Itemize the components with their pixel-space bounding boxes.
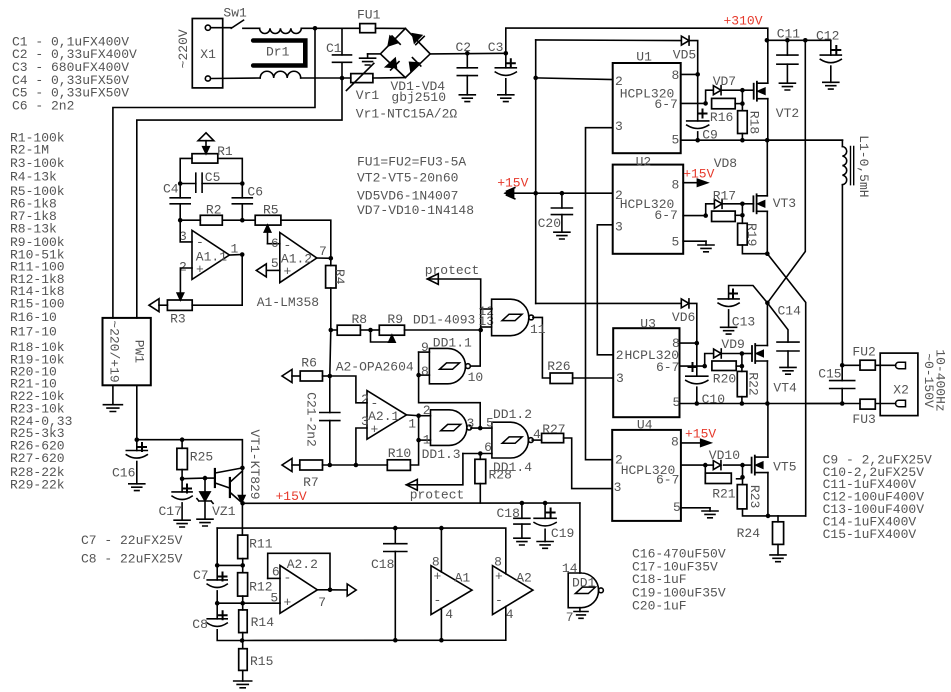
wire node down-left loop 2 (137, 78, 342, 318)
svg-text:C15-1uFX400V: C15-1uFX400V (823, 527, 917, 542)
svg-text:C20: C20 (538, 216, 561, 231)
wiper R5 (267, 229, 269, 244)
resistor R21 (704, 465, 706, 479)
resistor R23 (737, 485, 747, 509)
svg-text:3: 3 (614, 480, 622, 495)
capacitor C19 (543, 501, 548, 506)
svg-text:A2.2: A2.2 (287, 557, 318, 572)
svg-text:R25: R25 (190, 450, 213, 465)
svg-text:+15V: +15V (683, 167, 714, 182)
svg-text:R8: R8 (352, 312, 368, 327)
wire bottom rail (242, 607, 506, 641)
svg-text:C11: C11 (777, 27, 801, 42)
wire Sw1 to Dr1 (243, 27, 260, 29)
svg-text:R21: R21 (712, 486, 736, 501)
svg-text:+310V: +310V (724, 14, 763, 29)
optocoupler U4 (612, 430, 681, 521)
svg-text:2: 2 (423, 403, 431, 418)
svg-text:6-7: 6-7 (656, 360, 679, 375)
svg-text:3: 3 (616, 371, 624, 386)
wire DD1.1 inputs to node (416, 373, 421, 378)
svg-text:VZ1: VZ1 (212, 504, 236, 519)
wire R4-R6 column (330, 330, 331, 376)
wire A2.2 pin6 feedback (268, 577, 280, 579)
wire U2 pin8 +15V flag (683, 182, 699, 184)
svg-text:FU2: FU2 (852, 344, 875, 359)
svg-text:+15V: +15V (276, 489, 307, 504)
svg-text:6-7: 6-7 (654, 97, 677, 112)
resistor R7 line (282, 459, 292, 472)
wire A2.2 output (317, 589, 330, 591)
wire X1 bottom to Dr1 (211, 77, 260, 80)
svg-text:R1: R1 (217, 144, 233, 159)
svg-text:3: 3 (615, 119, 623, 134)
svg-text:9: 9 (421, 340, 429, 355)
resistor R25 (181, 440, 183, 449)
wire A2.1 pin2 (330, 376, 367, 403)
connector X1 (192, 19, 222, 88)
resistor R10 (387, 460, 410, 471)
gate DD1.3 (419, 415, 431, 417)
wire divider top rail (217, 528, 506, 574)
svg-text:DD1.1: DD1.1 (433, 336, 472, 351)
inductor L1 (767, 139, 842, 141)
svg-text:1: 1 (423, 433, 431, 448)
wire bridge to C2 C3 (430, 52, 506, 55)
wire +15V C20 line (505, 192, 612, 194)
capacitor C12 (830, 40, 832, 55)
svg-text:VD10: VD10 (709, 448, 740, 463)
svg-text:R17-10: R17-10 (10, 324, 57, 339)
capacitor C10 (696, 343, 698, 376)
svg-text:5: 5 (486, 416, 494, 431)
svg-text:PW1: PW1 (132, 340, 147, 364)
svg-text:R18: R18 (746, 111, 761, 134)
resistor R17 (712, 211, 736, 221)
svg-text:-: - (434, 593, 442, 608)
svg-text:8: 8 (671, 435, 679, 450)
svg-text:C17: C17 (159, 504, 182, 519)
svg-text:C20-1uF: C20-1uF (632, 599, 687, 614)
transistor VT5 (751, 458, 753, 473)
svg-text:C1: C1 (326, 41, 342, 56)
svg-text:5: 5 (270, 591, 278, 606)
svg-text:U3: U3 (640, 316, 656, 331)
wire Vr1 to bridge (373, 77, 406, 79)
svg-text:2: 2 (615, 74, 623, 89)
wire VD6 to U3 pin8 (690, 303, 697, 343)
svg-text:5: 5 (673, 500, 681, 515)
wire VT1 collector (241, 468, 243, 503)
svg-text:VD7: VD7 (713, 74, 736, 89)
wire protect top (427, 279, 480, 330)
svg-text:Vr1: Vr1 (356, 88, 380, 103)
diode VD6 (536, 302, 682, 304)
wire U1 pin6-7 (681, 102, 706, 104)
svg-text:C6: C6 (247, 185, 263, 200)
svg-text:R17: R17 (713, 188, 736, 203)
svg-text:-: - (371, 396, 379, 411)
svg-text:R27: R27 (542, 422, 565, 437)
+15V bus vertical left (535, 40, 537, 304)
wire +310 sub rail (767, 39, 831, 41)
svg-text:protect: protect (425, 263, 480, 278)
resistor R8 (331, 329, 337, 331)
svg-text:-: - (284, 571, 292, 586)
svg-text:5: 5 (672, 235, 680, 250)
svg-text:6: 6 (272, 564, 280, 579)
ground PW1 (112, 385, 114, 404)
capacitor C21 (329, 376, 331, 413)
resistor R6 (282, 370, 292, 383)
capacitor C18 bypass (520, 501, 525, 506)
wire A2.2 pin5 line (217, 602, 280, 604)
resistor R26 (533, 317, 550, 378)
svg-text:3: 3 (615, 219, 623, 234)
wire VT1 rail (137, 440, 243, 468)
wiper R9 (371, 330, 392, 342)
svg-text:~220/+19: ~220/+19 (107, 320, 122, 382)
svg-text:U2: U2 (636, 154, 652, 169)
svg-text:X1: X1 (200, 47, 216, 62)
svg-text:R15: R15 (250, 654, 273, 669)
svg-text:DD1.3: DD1.3 (422, 447, 461, 462)
wire U4 pin6-7 (681, 464, 705, 466)
resistor R16 (712, 98, 736, 108)
svg-text:2: 2 (615, 453, 623, 468)
svg-text:5: 5 (271, 256, 279, 271)
wire divider left column (216, 528, 218, 565)
svg-text:R19: R19 (744, 223, 759, 246)
svg-text:A1-LM358: A1-LM358 (257, 295, 319, 310)
wire A1.2 pin5 arrow (256, 264, 266, 277)
fuse FU2 (842, 364, 860, 366)
resistor R20 (712, 361, 736, 371)
wire U1 pin8 stub (695, 72, 700, 77)
svg-text:R2: R2 (206, 203, 222, 218)
optocoupler U3 (613, 328, 679, 417)
potentiometer R9 (379, 325, 404, 335)
svg-text:C5: C5 (205, 170, 221, 185)
svg-text:gbj2510: gbj2510 (391, 90, 446, 105)
svg-text:C6 - 2n2: C6 - 2n2 (12, 99, 74, 114)
node bottom-b (340, 76, 345, 81)
svg-text:C7 - 22uFX25V: C7 - 22uFX25V (81, 533, 183, 548)
svg-text:-: - (495, 593, 503, 608)
svg-text:R4-13k: R4-13k (10, 170, 57, 185)
zener VZ1 (182, 477, 205, 480)
svg-text:VT2-VT5-20n60: VT2-VT5-20n60 (357, 171, 458, 186)
svg-text:C15: C15 (818, 366, 841, 381)
resistor R2 (178, 218, 183, 223)
svg-text:C19: C19 (551, 526, 574, 541)
svg-text:Dr1: Dr1 (266, 44, 290, 59)
diode VD7 (706, 90, 714, 103)
svg-text:10: 10 (468, 370, 484, 385)
svg-text:R26: R26 (547, 359, 570, 374)
op-amp A1 power (440, 528, 442, 572)
fuse FU3 (840, 401, 845, 406)
svg-text:R14: R14 (251, 615, 275, 630)
capacitor C11 (785, 38, 790, 43)
svg-text:4: 4 (445, 607, 453, 622)
svg-text:7: 7 (319, 244, 327, 259)
capacitor C7 (216, 565, 218, 580)
svg-text:8: 8 (672, 336, 680, 351)
svg-text:5: 5 (672, 133, 680, 148)
potentiometer R5 (242, 219, 255, 221)
op-amp A1.1 (192, 230, 229, 279)
svg-text:8: 8 (421, 364, 429, 379)
resistor R27 (542, 433, 564, 442)
capacitor C8 (216, 603, 218, 619)
wire A2.1 output (407, 414, 419, 417)
+310V rail (506, 28, 768, 53)
diode VD5 (536, 39, 682, 42)
wire U1 pin2 (533, 76, 538, 81)
svg-text:1: 1 (408, 416, 416, 431)
node L1 FU2 (840, 363, 845, 368)
wire A1.1 pin2 to R3 (180, 268, 192, 297)
capacitor C9 (697, 74, 699, 121)
svg-text:R22: R22 (746, 372, 761, 395)
svg-text:R24: R24 (737, 526, 761, 541)
wire VD5 to U1 pin8 (690, 41, 698, 75)
svg-text:VT2: VT2 (776, 106, 799, 121)
svg-text:+: + (284, 595, 292, 610)
svg-text:R10: R10 (388, 446, 411, 461)
wire U2 pin3 (597, 225, 613, 355)
op-amp A2 power (493, 566, 533, 615)
svg-text:6-7: 6-7 (656, 472, 679, 487)
switch Sw1 (211, 27, 231, 29)
inductor Dr1 bottom winding (260, 71, 301, 78)
svg-text:C2: C2 (456, 40, 472, 55)
wire U4 pin5 ground (681, 507, 710, 509)
svg-text:4: 4 (506, 607, 514, 622)
svg-text:A1: A1 (455, 571, 471, 586)
svg-text:-: - (284, 238, 292, 253)
connector X2 (880, 353, 918, 416)
diode VD9 (705, 354, 714, 367)
wire VT5 source to right bus (768, 515, 806, 517)
wire U1 pin3 (586, 128, 613, 460)
capacitor C4 (179, 184, 181, 198)
svg-text:C7: C7 (193, 568, 209, 583)
wire U1 pin5 line (681, 139, 843, 141)
terminal arrow above R1 (198, 133, 214, 141)
svg-text:+: + (434, 569, 442, 584)
transistor VT1 (205, 477, 215, 479)
svg-text:10-400Hz: 10-400Hz (933, 349, 948, 411)
capacitor C13 (729, 286, 768, 303)
svg-text:VD5: VD5 (673, 48, 696, 63)
wire right bus upper (767, 40, 805, 303)
op-amp A2.2 (280, 565, 317, 613)
wire R27 to U4 pin3 (564, 438, 613, 489)
svg-text:A2-OPA2604: A2-OPA2604 (336, 359, 414, 374)
gate DD1.2 (492, 422, 529, 458)
node top-a (313, 26, 318, 31)
svg-text:2: 2 (361, 392, 369, 407)
svg-text:11: 11 (530, 322, 546, 337)
potentiometer R3 (167, 300, 192, 310)
svg-text:R11: R11 (249, 536, 273, 551)
svg-text:R16-10: R16-10 (10, 310, 57, 325)
wire Dr1 bottom to Vr1 (301, 77, 351, 79)
svg-text:VT4: VT4 (773, 381, 797, 396)
potentiometer R1 (192, 154, 218, 163)
svg-text:5: 5 (673, 395, 681, 410)
svg-text:VD6: VD6 (672, 310, 695, 325)
resistor R22 (737, 371, 747, 396)
node A1.1 output (229, 254, 242, 257)
svg-text:C16: C16 (112, 466, 135, 481)
svg-text:VD7-VD10-1N4148: VD7-VD10-1N4148 (357, 203, 474, 218)
svg-text:U1: U1 (636, 50, 652, 65)
svg-text:FU3: FU3 (852, 412, 875, 427)
svg-text:2: 2 (615, 188, 623, 203)
svg-text:R12: R12 (249, 580, 272, 595)
capacitor C16 (136, 440, 138, 451)
wire U3 pin5 output line (680, 403, 843, 405)
svg-text:L1-0,5mH: L1-0,5mH (856, 135, 871, 197)
capacitor C18 filter (394, 528, 396, 544)
svg-text:VT1-KT829: VT1-KT829 (247, 429, 262, 499)
svg-text:R23: R23 (747, 485, 762, 508)
svg-text:R4: R4 (332, 269, 347, 285)
svg-text:+15V: +15V (685, 426, 716, 441)
svg-text:2: 2 (616, 348, 624, 363)
wire DD1 pin14 riser (579, 503, 581, 573)
terminal arrow R3 (149, 299, 159, 312)
svg-text:R28: R28 (489, 468, 512, 483)
inductor Dr1 core (253, 41, 305, 66)
svg-text:R20: R20 (713, 372, 736, 387)
wire protect bottom (406, 454, 463, 485)
transistor VT4 (751, 346, 753, 361)
op-amp A2.1 (367, 391, 407, 440)
svg-text:VD5VD6-1N4007: VD5VD6-1N4007 (357, 188, 458, 203)
node +310 to right bus (803, 38, 808, 43)
capacitor C1 (341, 28, 343, 55)
resistor R12 (238, 573, 248, 596)
svg-text:Vr1-NTC15A/2Ω: Vr1-NTC15A/2Ω (356, 107, 458, 122)
wire U2 pin5 ground (683, 240, 706, 242)
svg-text:R3: R3 (170, 312, 186, 327)
svg-text:VD8: VD8 (714, 156, 737, 171)
wire DD1.1 output (471, 330, 481, 366)
svg-text:U4: U4 (637, 417, 653, 432)
svg-text:DD1.2: DD1.2 (493, 407, 532, 422)
+15V rail (243, 502, 580, 504)
svg-text:R7: R7 (303, 475, 319, 490)
svg-text:+: + (371, 422, 379, 437)
svg-text:C14: C14 (778, 304, 802, 319)
svg-text:FU1: FU1 (357, 8, 381, 23)
wire R1 right (218, 158, 243, 183)
svg-text:X2: X2 (893, 382, 909, 397)
wire A1.2 output (317, 257, 331, 259)
wire R1 left (180, 158, 192, 183)
svg-text:7: 7 (566, 610, 574, 625)
svg-text:R3-100k: R3-100k (10, 156, 65, 171)
capacitor C20 (561, 193, 563, 208)
capacitor C3 (504, 51, 509, 56)
svg-text:VT3: VT3 (773, 196, 796, 211)
svg-text:R5: R5 (263, 203, 279, 218)
svg-text:R6: R6 (301, 355, 317, 370)
svg-text:6: 6 (271, 236, 279, 251)
svg-text:C8: C8 (192, 617, 208, 632)
node R4 R8 (329, 328, 334, 333)
svg-text:C10: C10 (702, 392, 725, 407)
resistor R28 (479, 454, 481, 460)
svg-text:8: 8 (672, 68, 680, 83)
svg-text:R29-22k: R29-22k (10, 478, 65, 493)
node VT4 drain bus (765, 301, 770, 306)
wire DD1.3 output (471, 427, 492, 429)
svg-text:7: 7 (318, 595, 326, 610)
svg-text:VT5: VT5 (773, 460, 796, 475)
capacitor C6 (241, 184, 243, 198)
wire VT3 source diagonal (767, 254, 805, 516)
ground at bridge minus (368, 53, 381, 55)
wire node down-left loop 1 (113, 28, 315, 318)
svg-text:3: 3 (361, 414, 369, 429)
wire Dr1 to node (301, 27, 342, 29)
wire U2 pin6-7 (683, 215, 706, 217)
svg-text:C12: C12 (816, 29, 839, 44)
wire R11 C7 link (217, 564, 243, 566)
wire R3 to A1.1 out (192, 255, 242, 306)
wire PW1 out (136, 385, 138, 439)
svg-text:8: 8 (672, 178, 680, 193)
varistor Vr1 (351, 74, 373, 83)
svg-text:C21-2n2: C21-2n2 (303, 392, 318, 447)
svg-text:C4: C4 (163, 182, 179, 197)
svg-text:R16: R16 (710, 110, 733, 125)
power module PW1 (103, 318, 151, 385)
resistor R18 (738, 111, 748, 134)
svg-text:+: + (196, 262, 204, 277)
svg-text:8: 8 (494, 555, 502, 570)
fuse FU1 (342, 27, 360, 29)
svg-text:DD1: DD1 (572, 575, 596, 590)
inductor Dr1 top winding (260, 28, 302, 33)
svg-text:+: + (284, 264, 292, 279)
capacitor C14 (767, 303, 788, 342)
svg-text:+15V: +15V (497, 176, 528, 191)
svg-text:C8 - 22uFX25V: C8 - 22uFX25V (81, 552, 183, 567)
gate DD1(12,13-11) (481, 308, 492, 310)
gate DD1.1 (419, 351, 430, 353)
resistor R14 (239, 610, 248, 633)
svg-text:C18: C18 (497, 506, 520, 521)
bridge rectifier VD1-VD4 (380, 28, 430, 77)
capacitor C15 (841, 365, 843, 380)
transistor VT2 (753, 84, 755, 99)
diode VD10 (713, 461, 721, 470)
svg-text:6-7: 6-7 (654, 208, 677, 223)
resistor R19 (738, 223, 748, 245)
svg-text:+: + (495, 569, 503, 584)
wire A2.1 pin3 (356, 428, 367, 465)
svg-text:C13: C13 (732, 315, 755, 330)
wire DD1.2 output R27 (532, 439, 541, 441)
svg-text:C18: C18 (371, 557, 394, 572)
transistor VT3 (752, 196, 754, 211)
